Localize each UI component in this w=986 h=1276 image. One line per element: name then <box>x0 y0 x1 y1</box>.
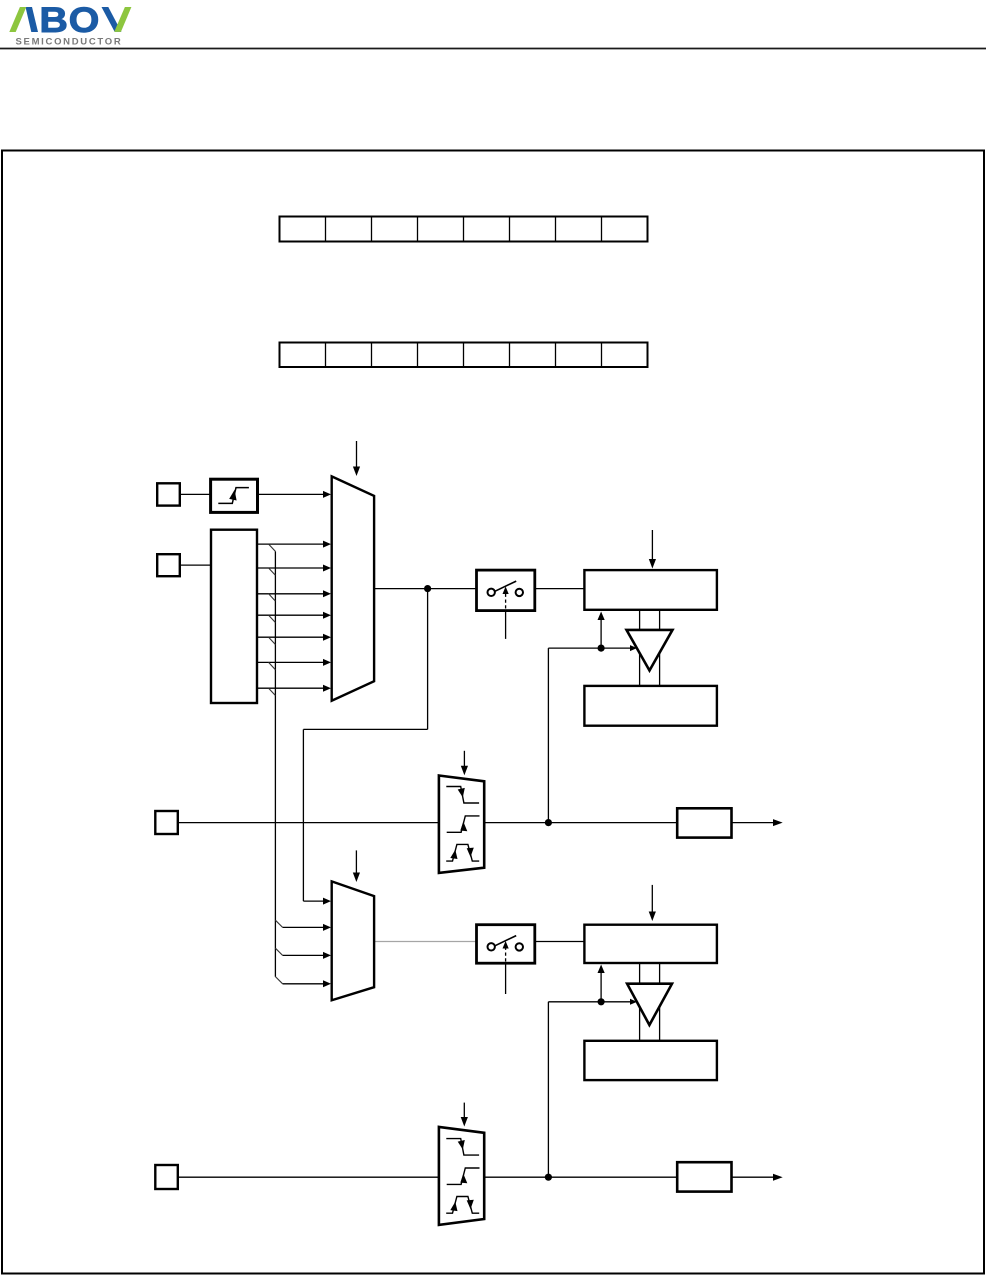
svg-text:SEMICONDUCTOR: SEMICONDUCTOR <box>16 36 123 47</box>
svg-text:BO: BO <box>39 0 100 39</box>
